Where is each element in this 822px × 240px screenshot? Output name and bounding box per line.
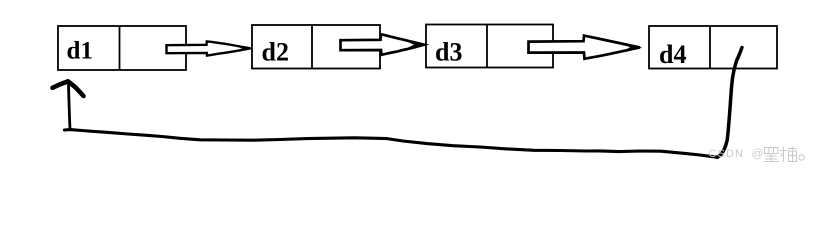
svg-text:CSDN: CSDN bbox=[709, 148, 745, 160]
svg-text:d4: d4 bbox=[659, 40, 686, 69]
svg-text:@: @ bbox=[752, 149, 764, 161]
svg-text:d2: d2 bbox=[262, 37, 289, 66]
svg-text:d1: d1 bbox=[67, 38, 93, 65]
svg-text:d3: d3 bbox=[435, 37, 462, 66]
